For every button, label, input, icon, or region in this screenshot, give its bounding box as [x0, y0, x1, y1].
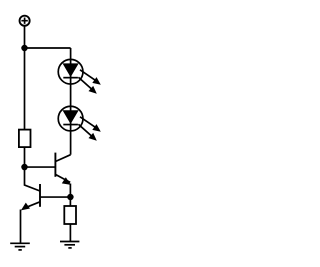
node B junction dot	[22, 165, 27, 170]
Q1 collector diagonal	[55, 155, 70, 162]
transistor Q2 (NPN, mirrored)	[21, 184, 41, 243]
Q2 base wire	[40, 196, 70, 198]
resistor R2	[64, 206, 76, 224]
LED D1	[58, 59, 83, 84]
node C junction dot	[68, 195, 73, 200]
LED D2 emission arrow 2	[78, 124, 96, 141]
ground (left)	[10, 243, 30, 250]
power supply V+	[20, 16, 30, 26]
node A junction dot	[22, 46, 27, 51]
Q1 base wire	[25, 166, 56, 168]
Q2 emitter	[26, 202, 40, 208]
resistor R1	[19, 130, 31, 148]
Q1 emitter	[55, 174, 70, 182]
ground (right)	[60, 242, 79, 248]
wire R1 to node B	[24, 147, 26, 167]
plus sign of supply	[21, 18, 27, 24]
Q1 base bar	[54, 153, 56, 177]
wire node A to LED column	[25, 47, 71, 49]
LED D2	[58, 106, 83, 131]
wire R2 to ground	[69, 224, 71, 242]
Q2 base bar	[39, 184, 41, 207]
LED D2 emission arrow 1	[80, 117, 101, 132]
wire supply to node A	[24, 26, 26, 49]
transistor Q1 (NPN)	[55, 153, 71, 197]
LED D1 emission arrow 2	[78, 77, 96, 94]
LED D1 emission arrow 1	[80, 70, 101, 85]
wire node A down to R1	[24, 48, 26, 130]
wire LED column down to Q1 collector corner	[70, 48, 72, 155]
Q2 collector wire	[25, 167, 41, 191]
wire node C to R2	[69, 197, 71, 206]
